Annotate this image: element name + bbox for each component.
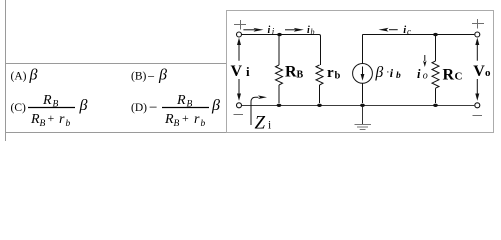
input terminal node top (open circle) <box>237 32 242 37</box>
current arrow i_b <box>285 28 304 32</box>
dependent current source circle <box>353 64 373 84</box>
Vi polarity arrow down (above bottom input node) <box>237 79 241 101</box>
svg-text:+: + <box>182 111 189 125</box>
Vo polarity arrow up (below top output node) <box>475 38 479 61</box>
svg-text:β: β <box>375 64 384 81</box>
svg-text:−: − <box>148 69 155 84</box>
divider line between question rows <box>5 63 227 65</box>
svg-text:i: i <box>390 66 394 80</box>
svg-text:b: b <box>66 119 71 129</box>
Zi looking-in arrow <box>251 95 267 125</box>
svg-text:B: B <box>174 119 180 129</box>
svg-text:i: i <box>246 64 250 79</box>
svg-text:B: B <box>40 119 46 129</box>
junction dot source bottom <box>360 104 365 107</box>
svg-text:b: b <box>201 119 206 129</box>
svg-text:i: i <box>417 67 421 81</box>
svg-text:c: c <box>407 26 411 36</box>
svg-text:B: B <box>297 70 304 81</box>
current arrow i_c (pointing left) <box>379 28 398 32</box>
svg-text:β: β <box>211 97 220 114</box>
svg-text:V: V <box>231 63 243 80</box>
resistor RB <box>276 36 283 103</box>
svg-text:i: i <box>268 25 271 36</box>
resistor RC <box>432 36 439 103</box>
circuit figure border box <box>227 11 494 133</box>
plus sign at output top <box>472 19 484 29</box>
plus sign at input top <box>234 20 246 30</box>
junction dot rb bottom <box>317 104 322 107</box>
svg-text:(A): (A) <box>11 71 27 83</box>
svg-text:i: i <box>268 120 271 132</box>
svg-text:i: i <box>403 25 406 36</box>
top-right rail wire from source to output node <box>363 34 475 36</box>
svg-text:(C): (C) <box>11 102 27 114</box>
svg-text:β: β <box>158 67 167 84</box>
junction dot RB top <box>277 33 282 36</box>
input terminal node bottom (open circle) <box>237 103 242 108</box>
Vi polarity arrow up (below top input node) <box>237 38 241 61</box>
svg-text:R: R <box>42 93 52 108</box>
svg-text:β: β <box>29 67 38 84</box>
current arrow i_o (downward, left of RC) <box>423 55 427 67</box>
output terminal node bottom (open circle) <box>475 103 480 108</box>
svg-text:o: o <box>423 71 428 82</box>
junction dot RC top <box>433 33 438 36</box>
minus sign at output bottom <box>473 115 483 117</box>
bottom divider line <box>5 132 494 134</box>
svg-text:r: r <box>327 65 334 81</box>
svg-text:b: b <box>335 71 341 82</box>
svg-text:+: + <box>48 111 55 125</box>
svg-text:r: r <box>59 112 65 127</box>
svg-text:V: V <box>473 63 485 80</box>
svg-text:(D): (D) <box>131 102 147 114</box>
bottom rail wire <box>242 105 475 107</box>
svg-text:R: R <box>164 112 174 127</box>
svg-text:R: R <box>30 112 40 127</box>
svg-text:R: R <box>285 64 297 81</box>
svg-text:Z: Z <box>255 113 266 134</box>
svg-text:o: o <box>485 67 491 79</box>
svg-text:β: β <box>79 97 88 114</box>
svg-text:(B): (B) <box>131 71 147 83</box>
resistor rb <box>316 65 323 103</box>
svg-text:b: b <box>311 28 315 37</box>
svg-text:R: R <box>443 67 455 84</box>
svg-text:−: − <box>149 100 157 116</box>
junction dot RB bottom <box>277 104 282 107</box>
left frame vertical line <box>5 0 7 141</box>
Vo polarity arrow down (above bottom output node) <box>475 79 479 101</box>
ground symbol <box>355 107 372 130</box>
option C fraction bar <box>28 107 75 109</box>
current source inner arrow (downward) <box>361 67 365 81</box>
svg-text:C: C <box>455 71 463 83</box>
current source bottom wire <box>362 83 364 103</box>
minus sign at input bottom <box>234 114 244 116</box>
current arrow i_i <box>243 28 263 32</box>
junction dot RC bottom <box>433 104 438 107</box>
option D fraction bar <box>162 107 209 109</box>
svg-text:b: b <box>396 71 401 81</box>
current source branch top wire <box>362 35 364 64</box>
output terminal node top (open circle) <box>475 32 480 37</box>
top-left rail wire from input node to rb corner <box>242 35 321 66</box>
svg-text:r: r <box>194 112 200 127</box>
svg-text:R: R <box>176 93 186 108</box>
